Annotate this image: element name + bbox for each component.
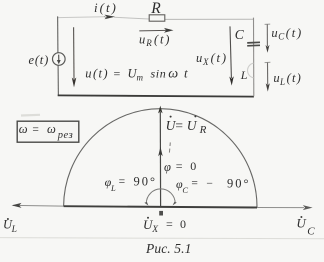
svg-text:t: t: [184, 66, 188, 81]
svg-text:X: X: [151, 225, 159, 235]
svg-text:L: L: [110, 183, 116, 193]
capacitor C1: [247, 42, 260, 46]
svg-text:=: =: [175, 118, 183, 133]
wire right vertical: [253, 18, 255, 97]
axis center segment (dark): [64, 206, 257, 207]
svg-text:=: =: [191, 178, 198, 190]
svg-text:u: u: [273, 71, 279, 85]
phasor U top arrowhead: [158, 106, 163, 114]
inductor L1 (faint arc): [248, 63, 254, 78]
arc end tick left: [144, 202, 148, 206]
dashed tick above phi: [169, 142, 171, 146]
label uR(t): [139, 33, 171, 49]
svg-text:sin: sin: [151, 67, 167, 81]
wire top (left segment, faint): [58, 16, 104, 19]
voltage arrow uC: [265, 24, 271, 53]
label phiC=-90: [176, 176, 251, 194]
label UX=0: [143, 217, 186, 235]
svg-text:ω: ω: [47, 122, 56, 136]
voltage arrow uX: [229, 26, 234, 85]
label phiL=90: [105, 174, 157, 192]
svg-text:=: =: [166, 217, 173, 231]
wire bottom: [58, 95, 254, 96]
svg-text:φ: φ: [164, 160, 171, 174]
label UL (left axis): [3, 217, 17, 235]
svg-text:u: u: [139, 33, 145, 47]
axis UL left segment: [13, 204, 64, 207]
svg-text:e(t): e(t): [29, 53, 50, 67]
svg-text:90°: 90°: [227, 176, 251, 190]
svg-text:(t): (t): [154, 33, 171, 47]
svg-text:U: U: [187, 118, 198, 133]
svg-text:C: C: [182, 185, 188, 195]
faint rule line: [0, 238, 324, 239]
svg-text:(t): (t): [287, 71, 302, 85]
svg-text:=: =: [114, 67, 121, 81]
svg-text:ω: ω: [168, 67, 178, 82]
label uL(t): [273, 71, 302, 87]
axis left arrowhead: [12, 203, 22, 208]
svg-text:=: =: [176, 159, 183, 173]
wire top (resistor to right corner): [165, 18, 254, 20]
svg-text:L: L: [11, 225, 17, 235]
box omega=omega_rez: [17, 121, 79, 142]
svg-text:m: m: [137, 73, 144, 83]
svg-text:R: R: [150, 0, 161, 17]
current arrow i(t): [104, 15, 115, 20]
svg-text:=: =: [119, 176, 126, 188]
wire left vertical: [57, 16, 59, 52]
faint smudge artifact: [21, 114, 40, 117]
wire top (mid segment to resistor): [114, 17, 149, 19]
svg-text:L: L: [240, 68, 248, 82]
svg-text:=: =: [32, 124, 39, 136]
resistor R1: [149, 15, 165, 21]
svg-text:X: X: [202, 57, 209, 67]
svg-text:(t): (t): [211, 51, 228, 65]
voltage arrow uL: [265, 62, 271, 91]
svg-text:(t): (t): [286, 26, 303, 40]
svg-text:u: u: [271, 26, 277, 40]
label u(t)=Um sin wt: [85, 66, 188, 83]
arc end tick right: [173, 202, 177, 206]
svg-text:u(t): u(t): [85, 67, 109, 81]
phasor U vertical line: [159, 112, 161, 206]
svg-text:C: C: [278, 32, 285, 42]
svg-text:R: R: [145, 38, 152, 48]
svg-text:u: u: [196, 51, 202, 65]
svg-text:ω: ω: [19, 122, 28, 136]
svg-text:L: L: [279, 77, 285, 87]
svg-text:Рис. 5.1: Рис. 5.1: [145, 241, 191, 256]
phasor U mid arrowhead: [158, 147, 163, 156]
axis right arrowhead: [303, 205, 313, 210]
voltage arrow uR: [139, 28, 173, 33]
svg-text:C: C: [235, 27, 245, 42]
label uX(t): [196, 51, 228, 67]
svg-text:90°: 90°: [134, 174, 158, 188]
svg-text:рез: рез: [57, 130, 73, 141]
semicircle locus: [64, 109, 257, 208]
svg-text:−: −: [206, 178, 213, 190]
tiny UX zero mark below axis: [159, 211, 163, 216]
source e(t) U1: [53, 53, 66, 66]
label uC(t): [271, 26, 303, 42]
svg-text:0: 0: [190, 159, 196, 173]
svg-text:0: 0: [180, 217, 186, 231]
axis UC right segment: [257, 207, 304, 209]
label U=UR: [166, 115, 207, 136]
label UC (right axis): [296, 216, 315, 238]
svg-text:i(t): i(t): [94, 0, 118, 15]
label phi=0: [164, 159, 196, 174]
voltage arrow u(t): [72, 27, 77, 87]
angle arc at origin: [146, 189, 175, 204]
svg-text:C: C: [307, 226, 315, 238]
svg-text:R: R: [199, 124, 207, 136]
